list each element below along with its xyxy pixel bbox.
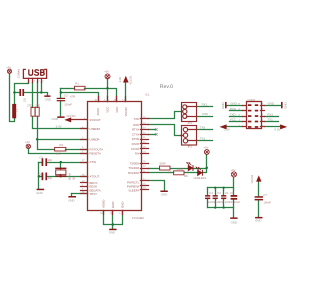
svg-text:VCC3O: VCC3O: [66, 115, 75, 118]
svg-text:GND: GND: [52, 117, 58, 121]
svg-text:C8: C8: [230, 192, 234, 195]
svg-text:C3: C3: [217, 192, 221, 195]
svg-text:100nF: 100nF: [225, 201, 233, 204]
svg-text:RX0: RX0: [202, 112, 208, 116]
svg-text:RTS#: RTS#: [132, 128, 140, 132]
svg-text:GND: GND: [161, 193, 167, 197]
svg-text:3.3V: 3.3V: [224, 127, 230, 131]
svg-text:330R: 330R: [177, 168, 183, 171]
svg-text:5.0V: 5.0V: [275, 127, 281, 131]
svg-text:USBDM: USBDM: [90, 127, 101, 131]
svg-text:RESET#: RESET#: [90, 152, 102, 156]
svg-text:27E: 27E: [35, 105, 40, 108]
svg-text:RXD: RXD: [133, 123, 139, 127]
svg-text:CON2: CON2: [248, 99, 256, 102]
svg-text:DCD#: DCD#: [131, 147, 139, 151]
svg-text:TXD: TXD: [134, 117, 140, 121]
svg-text:C7: C7: [263, 194, 267, 197]
svg-text:+5V: +5V: [231, 169, 236, 172]
svg-text:GND: GND: [283, 102, 287, 108]
svg-text:C6: C6: [38, 174, 42, 177]
svg-text:100nF: 100nF: [263, 202, 271, 205]
svg-text:AGND: AGND: [101, 200, 105, 208]
svg-text:DTR#: DTR#: [132, 137, 140, 141]
svg-text:VCCIO: VCCIO: [251, 175, 254, 184]
svg-text:TXD: TXD: [230, 112, 236, 116]
svg-text:TX1: TX1: [200, 137, 206, 141]
svg-text:C4: C4: [209, 192, 213, 195]
svg-text:FT232BM: FT232BM: [132, 217, 145, 220]
svg-text:TX1: TX1: [267, 118, 273, 122]
svg-text:C1: C1: [225, 192, 229, 195]
svg-text:3V3OUT: 3V3OUT: [90, 118, 101, 122]
svg-text:R6: R6: [184, 175, 188, 178]
svg-text:47R: 47R: [70, 95, 75, 98]
svg-text:IC1: IC1: [145, 94, 150, 97]
svg-text:R1: R1: [75, 83, 79, 86]
svg-text:GND: GND: [267, 101, 273, 105]
svg-text:TEST: TEST: [90, 192, 98, 196]
svg-text:100nF: 100nF: [217, 201, 225, 204]
svg-text:JP2: JP2: [187, 145, 192, 148]
svg-text:VCC: VCC: [115, 107, 119, 113]
svg-text:TX0: TX0: [200, 125, 206, 129]
svg-text:Rev.0: Rev.0: [160, 84, 173, 90]
svg-text:RI#: RI#: [135, 152, 140, 156]
svg-text:22p: 22p: [48, 177, 53, 180]
svg-text:GND: GND: [109, 231, 115, 235]
svg-text:USBDP: USBDP: [90, 137, 100, 141]
svg-text:+5V: +5V: [104, 71, 109, 74]
svg-text:VCC: VCC: [106, 107, 110, 113]
svg-text:C2: C2: [64, 95, 68, 98]
svg-text:VCC: VCC: [230, 118, 236, 122]
svg-text:AVCC: AVCC: [96, 108, 100, 116]
svg-text:6MHz: 6MHz: [69, 172, 72, 180]
svg-text:XTIN: XTIN: [90, 160, 97, 164]
svg-text:100nF: 100nF: [64, 104, 72, 107]
svg-text:Q1: Q1: [73, 176, 76, 180]
svg-text:RX1: RX1: [267, 112, 273, 116]
svg-text:LED2: LED2: [199, 177, 206, 180]
svg-text:TXDEN: TXDEN: [130, 161, 140, 165]
svg-text:XTOUT: XTOUT: [90, 174, 100, 178]
svg-text:RXD: RXD: [230, 107, 236, 111]
svg-text:27E: 27E: [27, 105, 32, 108]
svg-text:DSR#: DSR#: [132, 142, 140, 146]
svg-text:RX1: RX1: [202, 103, 208, 107]
svg-text:CONN1: CONN1: [17, 68, 20, 78]
svg-text:JP1: JP1: [187, 122, 192, 125]
svg-text:1K5: 1K5: [56, 152, 61, 155]
svg-text:VCCIO: VCCIO: [129, 76, 132, 85]
svg-text:+5V: +5V: [6, 66, 11, 69]
svg-text:GND: GND: [111, 202, 115, 208]
svg-text:L1: L1: [16, 109, 19, 112]
svg-text:22p: 22p: [48, 159, 53, 162]
svg-text:GND: GND: [36, 191, 42, 195]
svg-text:+5V: +5V: [25, 141, 30, 144]
svg-text:R2: R2: [60, 144, 64, 147]
svg-text:GND: GND: [255, 219, 261, 223]
svg-text:C5: C5: [39, 156, 43, 159]
svg-text:+5V: +5V: [203, 147, 208, 150]
svg-text:SLEEP#: SLEEP#: [128, 189, 139, 193]
svg-text:GND: GND: [68, 199, 74, 203]
svg-text:GND: GND: [45, 98, 51, 102]
svg-text:VCCIO: VCCIO: [124, 107, 128, 117]
svg-text:10uF: 10uF: [234, 201, 240, 204]
svg-text:GND: GND: [231, 220, 237, 224]
svg-text:100nF: 100nF: [208, 201, 216, 204]
svg-text:3.3V: 3.3V: [56, 124, 62, 128]
svg-text:TXLED#: TXLED#: [128, 166, 139, 170]
svg-text:RXLED#: RXLED#: [128, 171, 140, 175]
svg-text:3.3V: 3.3V: [119, 77, 122, 83]
svg-text:CTS#: CTS#: [132, 132, 140, 136]
svg-text:R5: R5: [168, 171, 172, 174]
svg-text:GND: GND: [221, 102, 225, 108]
svg-text:330R: 330R: [159, 162, 165, 165]
svg-text:C9: C9: [23, 98, 26, 102]
svg-text:GND: GND: [121, 202, 125, 208]
svg-text:GND: GND: [230, 101, 236, 105]
